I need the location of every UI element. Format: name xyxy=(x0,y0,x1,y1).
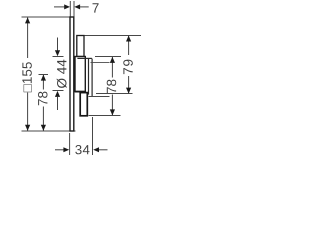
wall plate 155x7 side view xyxy=(70,17,74,131)
wire: bottom extension line of plate (left) xyxy=(22,130,76,132)
dimension 79 (knob1 top to body bottom) xyxy=(128,36,130,55)
knob U1 (upper select button) xyxy=(77,36,84,57)
wire: extension plate front down for dim 34 xyxy=(69,133,71,155)
dimension square 155 (plate size) xyxy=(27,18,29,58)
dimension 34 (depth) xyxy=(55,149,64,151)
wire: handle inner step line xyxy=(77,57,92,59)
wire: top extension line of plate (left) xyxy=(22,16,75,18)
wire: handle bottom edge thick xyxy=(75,91,86,93)
dimension 78 right (knob top to box bottom) xyxy=(111,57,113,78)
knob Q1 (thermostat handle, diameter 44) xyxy=(75,57,85,92)
wire: extension of knob top edge to dim 79 xyxy=(85,35,142,37)
wire: extension box bottom edge right (dim 78 bottom tick) xyxy=(89,115,121,117)
wire: plate front face extended up for dim 7 xyxy=(69,1,71,17)
dimension diameter 44 (handle) xyxy=(53,56,64,58)
collar right edge xyxy=(91,59,93,97)
collar left edge xyxy=(88,59,90,95)
wire: collar inner step line xyxy=(91,61,110,63)
dimension 7 (plate thickness) xyxy=(54,6,65,8)
lower box (hose outlet) xyxy=(80,93,87,116)
wire: extension body right down for dim 34 xyxy=(92,117,94,155)
wire: extension for dim 79 bottom tick xyxy=(96,93,133,95)
dimension 78 left (handle axis to plate bottom) xyxy=(39,74,49,76)
wire: collar bottom line xyxy=(89,96,110,98)
wire: extension knob top edge right (dim 78 top tick) xyxy=(95,56,121,58)
wire: plate back face extended up for dim 7 xyxy=(73,1,75,17)
